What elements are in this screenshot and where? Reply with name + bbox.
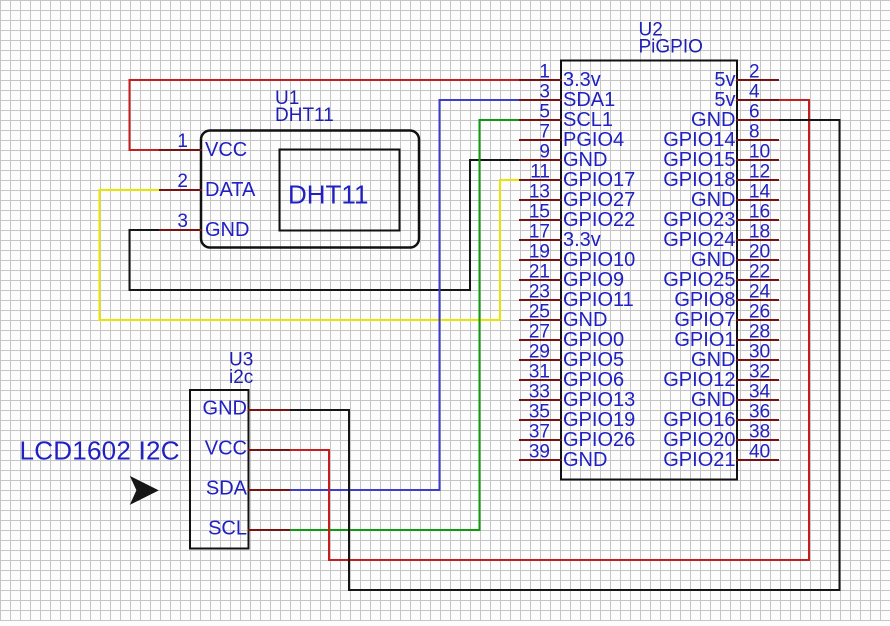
- svg-text:3: 3: [177, 211, 188, 232]
- svg-text:GPIO18: GPIO18: [663, 169, 735, 191]
- svg-text:1: 1: [177, 131, 188, 152]
- pin 2 stub (5v): [737, 79, 778, 81]
- wire W6c red horizontal: [329, 559, 809, 561]
- svg-text:36: 36: [749, 402, 770, 423]
- U3 pin stub (VCC): [249, 449, 290, 451]
- svg-text:1: 1: [539, 62, 550, 83]
- wire W1a red U1.VCC horizontal: [130, 149, 161, 151]
- svg-text:GPIO11: GPIO11: [563, 289, 634, 311]
- pin 23 stub (GPIO11): [520, 299, 561, 301]
- pin 25 stub (GND): [520, 319, 561, 321]
- pin 18 stub (GPIO24): [737, 239, 778, 241]
- pin 30 stub (GND): [737, 359, 778, 361]
- svg-text:20: 20: [749, 242, 770, 263]
- pin 31 stub (GPIO6): [520, 379, 561, 381]
- svg-text:GND: GND: [691, 189, 735, 211]
- svg-text:26: 26: [749, 302, 770, 323]
- svg-text:29: 29: [529, 342, 550, 363]
- wire W3e black to U2.pin9: [470, 159, 520, 161]
- U1 pin 2 stub (DATA): [160, 189, 201, 191]
- wire W6b red vertical down: [808, 100, 810, 560]
- svg-text:23: 23: [529, 282, 550, 303]
- wire W5c green to U3.SCL: [289, 529, 480, 531]
- svg-text:3: 3: [539, 82, 550, 103]
- wire W7a black U2.pin6 horizontal: [778, 119, 840, 121]
- svg-text:34: 34: [749, 382, 771, 403]
- svg-text:GPIO24: GPIO24: [663, 229, 735, 251]
- pin 22 stub (GPIO25): [737, 279, 778, 281]
- U3 pin stub (GND): [249, 409, 290, 411]
- pin 4 stub (5v): [737, 99, 778, 101]
- pin 27 stub (GPIO0): [520, 339, 561, 341]
- pin 10 stub (GPIO15): [737, 159, 778, 161]
- svg-text:GPIO10: GPIO10: [563, 249, 635, 271]
- wire W7c black horizontal: [349, 589, 840, 591]
- wire W4b blue vertical down: [439, 100, 441, 490]
- svg-text:GND: GND: [691, 249, 735, 271]
- pin 20 stub (GND): [737, 259, 778, 261]
- svg-text:3.3v: 3.3v: [563, 69, 601, 91]
- pin 7 stub (PGIO4): [520, 139, 561, 141]
- svg-text:GND: GND: [691, 349, 735, 371]
- svg-text:GPIO7: GPIO7: [674, 309, 735, 331]
- pin 28 stub (GPIO1): [737, 339, 778, 341]
- svg-text:37: 37: [529, 422, 550, 443]
- svg-text:VCC: VCC: [205, 438, 247, 460]
- svg-text:GPIO17: GPIO17: [563, 169, 635, 191]
- svg-text:16: 16: [749, 202, 770, 223]
- svg-text:GPIO15: GPIO15: [663, 149, 735, 171]
- wire W7e black to U3.GND: [289, 409, 349, 411]
- wire W7d black vertical up: [348, 410, 350, 590]
- svg-text:GND: GND: [563, 449, 607, 471]
- svg-text:GPIO0: GPIO0: [563, 329, 624, 351]
- wire W2c yellow horizontal: [100, 319, 501, 321]
- svg-text:PGIO4: PGIO4: [563, 129, 624, 151]
- svg-text:GPIO16: GPIO16: [663, 409, 735, 431]
- svg-text:3.3v: 3.3v: [563, 229, 601, 251]
- svg-text:GND: GND: [563, 309, 607, 331]
- svg-text:19: 19: [529, 242, 550, 263]
- svg-text:i2c: i2c: [229, 367, 253, 388]
- svg-text:17: 17: [529, 222, 550, 243]
- wire W3b black vertical down: [129, 230, 131, 290]
- svg-text:SDA1: SDA1: [563, 89, 615, 111]
- svg-text:2: 2: [749, 62, 760, 83]
- svg-text:GPIO9: GPIO9: [563, 269, 624, 291]
- IC U2 PiGPIO body: [561, 61, 737, 480]
- svg-text:22: 22: [749, 262, 770, 283]
- svg-text:33: 33: [529, 382, 550, 403]
- svg-text:GPIO23: GPIO23: [663, 209, 735, 231]
- pin 29 stub (GPIO5): [520, 359, 561, 361]
- wire W4a blue U2.pin3 horizontal: [440, 99, 521, 101]
- wire W3c black horizontal: [130, 289, 471, 291]
- U1 pin 1 stub (VCC): [160, 149, 201, 151]
- svg-text:38: 38: [749, 422, 770, 443]
- pin 5 stub (SCL1): [520, 119, 561, 121]
- U3 pin stub (SCL): [249, 529, 290, 531]
- U1 inner outline: [280, 150, 400, 231]
- svg-text:35: 35: [529, 402, 550, 423]
- wire W6e red to U3.VCC: [289, 449, 329, 451]
- svg-text:10: 10: [749, 142, 770, 163]
- svg-text:31: 31: [529, 362, 550, 383]
- svg-text:VCC: VCC: [205, 139, 247, 161]
- svg-text:GPIO19: GPIO19: [563, 409, 635, 431]
- svg-text:7: 7: [539, 122, 550, 143]
- pin 15 stub (GPIO22): [520, 219, 561, 221]
- svg-text:SCL1: SCL1: [563, 109, 613, 131]
- svg-text:5v: 5v: [714, 69, 735, 91]
- svg-text:GND: GND: [691, 389, 735, 411]
- svg-text:GPIO8: GPIO8: [674, 289, 735, 311]
- svg-text:2: 2: [177, 171, 188, 192]
- wire W5a green U2.pin5 horizontal: [480, 119, 521, 121]
- svg-text:39: 39: [529, 442, 550, 463]
- svg-text:PiGPIO: PiGPIO: [639, 37, 703, 58]
- pin 26 stub (GPIO7): [737, 319, 778, 321]
- svg-text:15: 15: [529, 202, 550, 223]
- pin 11 stub (GPIO17): [520, 179, 561, 181]
- pin 12 stub (GPIO18): [737, 179, 778, 181]
- wire W7b black vertical down: [839, 120, 841, 590]
- pin 13 stub (GPIO27): [520, 199, 561, 201]
- svg-text:GPIO20: GPIO20: [663, 429, 735, 451]
- pin 37 stub (GPIO26): [520, 439, 561, 441]
- pin 6 stub (GND): [737, 119, 778, 121]
- svg-text:SCL: SCL: [208, 518, 247, 540]
- svg-text:GPIO12: GPIO12: [663, 369, 735, 391]
- wire W3d black vertical up: [469, 160, 471, 290]
- svg-text:GND: GND: [205, 219, 249, 241]
- pin 17 stub (3.3v): [520, 239, 561, 241]
- pin 8 stub (GPIO14): [737, 139, 778, 141]
- svg-text:6: 6: [749, 102, 760, 123]
- svg-text:DHT11: DHT11: [288, 180, 368, 210]
- svg-text:GPIO25: GPIO25: [663, 269, 735, 291]
- svg-text:GPIO14: GPIO14: [663, 129, 735, 151]
- svg-text:27: 27: [529, 322, 550, 343]
- svg-text:5v: 5v: [714, 89, 735, 111]
- svg-text:SDA: SDA: [206, 478, 248, 500]
- pin 14 stub (GND): [737, 199, 778, 201]
- svg-text:GPIO1: GPIO1: [674, 329, 735, 351]
- pin 34 stub (GND): [737, 399, 778, 401]
- pin 33 stub (GPIO13): [520, 399, 561, 401]
- svg-text:40: 40: [749, 442, 770, 463]
- svg-text:11: 11: [530, 162, 550, 183]
- svg-text:GND: GND: [203, 398, 247, 420]
- pin 40 stub (GPIO21): [737, 459, 778, 461]
- svg-text:DATA: DATA: [205, 179, 256, 201]
- svg-text:GPIO21: GPIO21: [663, 449, 735, 471]
- svg-text:13: 13: [529, 182, 550, 203]
- svg-text:5: 5: [539, 102, 550, 123]
- svg-text:18: 18: [749, 222, 770, 243]
- svg-text:9: 9: [539, 142, 550, 163]
- pin 9 stub (GND): [520, 159, 561, 161]
- pin 39 stub (GND): [520, 459, 561, 461]
- svg-text:GPIO5: GPIO5: [563, 349, 624, 371]
- pin 16 stub (GPIO23): [737, 219, 778, 221]
- pin 24 stub (GPIO8): [737, 299, 778, 301]
- sensor U1 DHT11 body: [201, 131, 419, 248]
- svg-text:28: 28: [749, 322, 770, 343]
- svg-text:GND: GND: [691, 109, 735, 131]
- pin 1 stub (3.3v): [520, 79, 561, 81]
- arrow marker pointing at U3: [130, 476, 159, 505]
- U1 pin 3 stub (GND): [160, 229, 201, 231]
- pin 32 stub (GPIO12): [737, 379, 778, 381]
- U3 pin stub (SDA): [249, 489, 290, 491]
- pin 36 stub (GPIO16): [737, 419, 778, 421]
- svg-text:GPIO6: GPIO6: [563, 369, 624, 391]
- svg-text:GPIO27: GPIO27: [563, 189, 635, 211]
- wire W5b green vertical down: [479, 120, 481, 530]
- wire W2e yellow to U2.pin11: [500, 179, 520, 181]
- svg-text:4: 4: [749, 82, 760, 103]
- svg-text:LCD1602 I2C: LCD1602 I2C: [20, 436, 180, 466]
- svg-text:25: 25: [529, 302, 550, 323]
- svg-text:12: 12: [749, 162, 770, 183]
- wire W1b red vertical: [129, 80, 131, 150]
- pin 19 stub (GPIO10): [520, 259, 561, 261]
- wire W3a black U1.GND horizontal: [130, 229, 161, 231]
- wire W2d yellow vertical up: [499, 180, 501, 320]
- wire W6a red U2.pin4 horizontal: [778, 99, 809, 101]
- svg-text:GPIO26: GPIO26: [563, 429, 635, 451]
- wire W4c blue to U3.SDA: [289, 489, 440, 491]
- wire W6d red vertical up: [328, 450, 330, 560]
- svg-text:8: 8: [749, 122, 760, 143]
- svg-text:GND: GND: [563, 149, 607, 171]
- svg-text:DHT11: DHT11: [275, 105, 334, 126]
- svg-text:GPIO13: GPIO13: [563, 389, 635, 411]
- svg-text:14: 14: [749, 182, 771, 203]
- svg-text:GPIO22: GPIO22: [563, 209, 635, 231]
- module U3 i2c body: [190, 390, 249, 549]
- pin 21 stub (GPIO9): [520, 279, 561, 281]
- svg-text:32: 32: [749, 362, 770, 383]
- svg-text:21: 21: [529, 262, 550, 283]
- wire W2a yellow U1.DATA horizontal: [100, 189, 161, 191]
- pin 38 stub (GPIO20): [737, 439, 778, 441]
- svg-text:24: 24: [749, 282, 771, 303]
- pin 35 stub (GPIO19): [520, 419, 561, 421]
- wire W1c red horizontal to U2.pin1: [130, 79, 521, 81]
- svg-text:30: 30: [749, 342, 770, 363]
- pin 3 stub (SDA1): [520, 99, 561, 101]
- wire W2b yellow vertical: [99, 190, 101, 320]
